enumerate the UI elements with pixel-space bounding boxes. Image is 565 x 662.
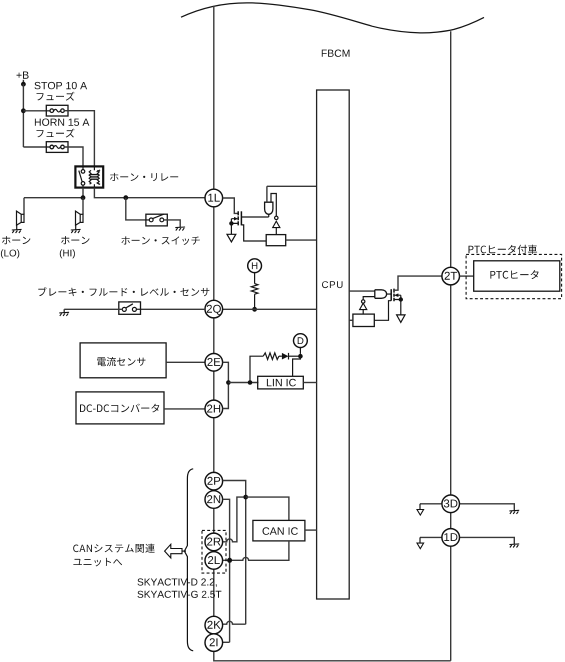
- transistor Q2 (high-side MOSFET, PTC): [390, 289, 392, 301]
- horn relay coil: [93, 166, 95, 187]
- junction +B / STOP fuse: [21, 108, 26, 113]
- wire U3 to Q2 gate: [387, 293, 392, 295]
- wire 2R (hops bus B): [223, 497, 244, 542]
- dashed box: SKYACTIV connectors: [202, 530, 226, 573]
- PTC heater box: [474, 261, 560, 291]
- gate driver U1 (bullet): [265, 202, 273, 214]
- junction horn feed: [81, 195, 86, 200]
- wire horn switch to ground: [164, 220, 181, 227]
- resistor R4 (sense): [353, 314, 374, 326]
- ground (horn switch): [175, 227, 185, 231]
- label horn relay (katakana): [110, 173, 178, 181]
- wire H to resistor: [254, 272, 256, 284]
- resistor R3 (LIN pull-up, zigzag): [263, 353, 279, 360]
- junction pull-up branch: [248, 380, 253, 385]
- wire 2H to LIN junction: [223, 383, 229, 409]
- label horn (katakana): [61, 236, 89, 244]
- label fuse (katakana): [37, 129, 75, 138]
- label STOP 10 A: [35, 82, 88, 89]
- FBCM label: [322, 50, 350, 57]
- node D: [294, 334, 308, 348]
- wire to HORN fuse: [23, 146, 50, 148]
- wire to horn switch: [126, 198, 150, 220]
- wire 2P / vertical bus A: [223, 481, 246, 625]
- ground (3D left, arrow): [417, 510, 424, 516]
- node H: [248, 259, 262, 273]
- wire LIN IC to CPU: [303, 382, 316, 384]
- ground (Q2 source, open triangle): [397, 315, 405, 323]
- wire 3D left to chassis ground: [420, 503, 442, 505]
- gate driver U3 (bullet): [375, 290, 387, 299]
- label (LO): [1, 249, 19, 258]
- LIN IC: [258, 376, 304, 389]
- label SKYACTIV-D 2.2,: [138, 578, 217, 586]
- wire Q1 gate to driver U1: [241, 216, 268, 218]
- transistor Q1 (low-side MOSFET, horn relay): [237, 211, 239, 225]
- wire Q1 gate network to R1: [241, 225, 266, 241]
- wire 2Q to brake fluid level sensor: [136, 308, 205, 310]
- label PTC heater equipped vehicles: [469, 245, 538, 254]
- connector 3D (ground reference): [442, 495, 460, 513]
- label PTC heater: [490, 270, 538, 279]
- wire CAN IC to CPU: [305, 529, 317, 531]
- connector 2H (DC-DC converter): [205, 400, 223, 418]
- label brake fluid level sensor (katakana): [38, 287, 209, 296]
- FBCM bottom boundary wire: [214, 651, 451, 661]
- wire CPU to driver U3: [349, 290, 375, 292]
- wire relay coil to connector 1L: [94, 188, 205, 198]
- wire branch up: [250, 356, 263, 382]
- horn (HI) speaker: [80, 214, 83, 222]
- connector 2N (CAN): [205, 491, 223, 509]
- junction R2 / 2Q line: [252, 307, 257, 312]
- junction Q2 source/body: [399, 297, 403, 301]
- junction Q1 source/body: [229, 221, 233, 225]
- ground (brake fluid level sensor): [59, 312, 69, 316]
- diode D2: [282, 353, 289, 360]
- connector 2Q (brake fluid level): [205, 300, 223, 318]
- IC U2: CPU block: [317, 90, 350, 599]
- wire horn HI drop: [82, 198, 84, 215]
- wire CPU to R4: [349, 319, 353, 321]
- wire U1 supply to CPU: [267, 186, 317, 202]
- wire R4 to Q2 gate: [374, 301, 391, 321]
- resistor R1 (sense): [266, 235, 286, 246]
- fuse HORN 15 A: [46, 142, 68, 153]
- connector 2L (CAN): [205, 552, 223, 570]
- current sensor box: [80, 343, 166, 378]
- CAN IC: [253, 520, 305, 541]
- wire relay contact to horns: [24, 188, 83, 215]
- resistor R2 (pull-up, zigzag): [251, 284, 258, 295]
- ground (Q1 source, open triangle): [227, 234, 236, 242]
- wire +B down to fuse branch: [22, 84, 24, 147]
- fuse STOP 10 A: [46, 105, 68, 116]
- connector 2T (PTC heater output): [442, 267, 460, 285]
- connector 2K (CAN): [205, 616, 223, 634]
- connector 2I (CAN): [205, 634, 223, 652]
- wire 2E to LIN junction: [223, 362, 229, 382]
- junction 2N/2L bus B: [227, 558, 232, 563]
- FBCM left boundary wire (connector rail): [213, 6, 215, 651]
- FBCM module top break (wavy line): [181, 3, 484, 33]
- ground (3D right): [509, 510, 519, 514]
- label current sensor (katakana): [97, 357, 145, 366]
- connector 2P (CAN): [205, 472, 223, 490]
- wire 2Q to CPU: [223, 308, 317, 310]
- label DC-DC converter: [80, 404, 159, 413]
- label fuse (katakana): [37, 92, 75, 101]
- wire 3D right to ground: [460, 504, 515, 511]
- wire Q2 drain to 2T: [394, 276, 442, 290]
- wire 2T to PTC heater: [460, 275, 474, 277]
- wire 2I: [223, 641, 230, 643]
- connector 2E (current sensor input): [205, 354, 223, 372]
- wire HORN fuse to relay contact: [64, 147, 83, 166]
- wire junction to LIN IC: [228, 382, 258, 384]
- wire 2K (hops bus B): [223, 621, 246, 624]
- brake fluid level sensor switch: [119, 302, 141, 314]
- label horn (katakana): [2, 236, 30, 244]
- label to CAN system related: [73, 544, 155, 553]
- wire DC-DC to 2H: [164, 408, 205, 410]
- label horn switch (katakana): [121, 236, 199, 245]
- wire R1 to CPU: [286, 239, 317, 241]
- protection device D3 (circle+triangle): [362, 300, 365, 303]
- wire bus A to CAN IC top: [246, 497, 289, 520]
- junction bus A: [243, 495, 248, 500]
- ground (horn HI): [71, 229, 81, 233]
- label units (katakana): [73, 558, 122, 567]
- dashed box: with PTC heater option: [466, 254, 561, 298]
- connector 1L (horn relay drive): [205, 189, 223, 207]
- horn relay contact: [82, 166, 84, 169]
- wire 1L to MOSFET drain: [223, 198, 239, 213]
- ground (1D right): [509, 544, 519, 548]
- connector 2R (CAN): [205, 533, 223, 551]
- wire 1D left to chassis ground: [420, 536, 442, 538]
- FBCM right boundary wire (connector rail): [450, 31, 452, 661]
- wire node D to LIN IC: [293, 356, 301, 376]
- horn switch: [146, 214, 167, 226]
- ground (1D left, arrow): [417, 543, 424, 549]
- wire sensor to ground: [64, 309, 122, 312]
- junction node D: [298, 354, 303, 359]
- ground (horn LO): [12, 229, 22, 233]
- arrow to CAN system units: [182, 550, 186, 552]
- junction horn switch tap: [123, 195, 128, 200]
- junction 2E/2H: [226, 380, 231, 385]
- wire U3 feedback loop: [363, 297, 375, 300]
- brace: CAN group: [184, 469, 193, 651]
- DC-DC converter box: [76, 392, 164, 424]
- horn relay (box): [75, 166, 103, 187]
- wire 2N / vertical bus B: [223, 499, 230, 642]
- wire current sensor to 2E: [166, 361, 205, 363]
- label (HI): [60, 249, 75, 258]
- CPU label: [322, 281, 343, 288]
- wire U1 feedback loop: [271, 194, 276, 217]
- label SKYACTIV-G 2.5T: [138, 591, 222, 598]
- wire to STOP fuse: [23, 110, 50, 112]
- wire 1D right to ground: [460, 537, 515, 544]
- connector 1D (ground reference): [442, 529, 460, 547]
- protection device D1 (circle+triangle): [275, 216, 278, 219]
- wire STOP fuse to horn relay coil: [64, 111, 94, 167]
- label HORN 15 A: [35, 119, 90, 126]
- wire 2L (hops bus A) to CAN IC bottom: [223, 542, 289, 561]
- horn (LO) speaker: [21, 214, 24, 222]
- node +B battery feed: [17, 72, 29, 79]
